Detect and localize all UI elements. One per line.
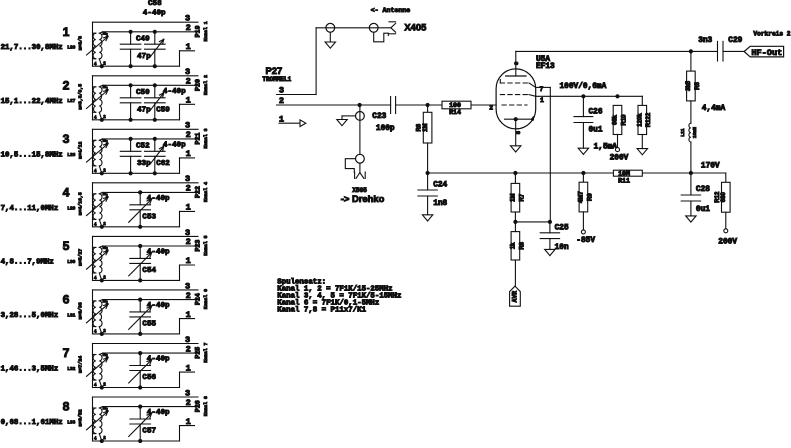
svg-text:10M: 10M [618,170,630,177]
svg-text:4-40p: 4-40p [147,409,170,417]
transformer L31 n=6/38 [87,300,109,335]
connector P23 Kanal 5 pin labels [185,228,209,266]
svg-text:680: 680 [721,192,727,203]
svg-text:1: 1 [540,97,544,104]
svg-text:1n8: 1n8 [433,200,447,208]
connector P19 Kanal 1 pin labels [185,14,209,52]
svg-text:C58: C58 [148,0,162,8]
svg-text:R6: R6 [417,123,423,131]
svg-text:R9: R9 [587,193,593,201]
svg-text:1: 1 [186,149,191,159]
svg-text:3: 3 [185,281,190,291]
svg-text:L29: L29 [67,205,75,211]
svg-text:4-40p: 4-40p [147,195,170,203]
svg-text:L32: L32 [67,366,75,372]
capacitor C52 33p [120,137,151,176]
svg-text:R5: R5 [695,82,701,90]
connector P25 Kanal 7 pin labels [185,335,209,373]
svg-text:L27: L27 [67,98,75,104]
trimmer capacitor C54 4-40p [100,244,170,283]
resistor R7 1M [511,173,526,222]
svg-text:Kanal 1: Kanal 1 [203,21,209,41]
svg-text:10mH: 10mH [692,127,698,138]
wire frame Kanal 3 [93,129,199,173]
wire frame Kanal 4 [93,183,199,227]
svg-text:1: 1 [186,96,191,106]
node labels channel 5 [1,239,84,266]
svg-text:0u1: 0u1 [589,126,603,134]
trimmer capacitor C59 4-40p [100,83,186,122]
svg-text:4-40p: 4-40p [147,356,170,364]
channel 7 filter block [1,335,210,390]
channel 6 filter block [1,281,210,336]
svg-text:4-40p: 4-40p [147,248,170,256]
transformer L26 n=3/8 [87,32,109,67]
wire P27 pin3 to antenna [277,94,317,96]
svg-text:n=4/12: n=4/12 [78,142,84,159]
svg-text:n=3/8: n=3/8 [78,36,84,51]
wire frame Kanal 1 [93,22,199,66]
ground under C26 [578,143,617,154]
svg-text:1M: 1M [511,194,517,202]
svg-text:4,8...7,9MHz: 4,8...7,9MHz [1,258,54,266]
node labels channel 8 [1,400,84,427]
svg-text:3,28...5,0MHz: 3,28...5,0MHz [1,312,59,320]
svg-text:2: 2 [186,184,191,194]
capacitor C25 10n [540,222,569,256]
svg-text:n=3,5/8,5: n=3,5/8,5 [78,84,84,110]
resistor R8 1k [511,222,526,286]
svg-text:100p: 100p [376,125,395,133]
svg-text:3: 3 [63,132,70,146]
wire: AVR bias line with R11 [426,162,726,182]
transformer L32 n=7/24 [87,353,109,388]
svg-text:C55: C55 [142,321,156,329]
channel 3 filter block [1,121,210,176]
svg-text:C50: C50 [136,89,150,97]
wire frame Kanal 7 [93,344,199,388]
svg-text:3n3: 3n3 [698,37,712,45]
svg-text:P26: P26 [194,400,201,412]
note Spulensatz table [277,279,401,315]
svg-text:P24: P24 [194,293,201,305]
svg-text:R122: R122 [646,112,652,127]
svg-text:C57: C57 [142,428,156,436]
capacitor C50 47p [120,83,151,122]
svg-text:5: 5 [63,239,70,253]
svg-text:-85V: -85V [576,237,595,245]
channel 4 filter block [1,174,210,229]
svg-text:L26: L26 [67,45,75,51]
op-amp U5A EF13 pentode tube [489,51,555,145]
trimmer capacitor C58 4-40p [100,0,166,68]
svg-text:Kanal 7: Kanal 7 [203,343,209,363]
socket circle with ground [325,23,335,48]
capacitor C28 0u1 [681,173,710,222]
svg-text:L33: L33 [67,420,75,426]
svg-text:C53: C53 [142,213,156,221]
label Antenne [371,7,411,14]
node labels channel 4 [1,185,84,215]
svg-text:L11: L11 [680,128,686,137]
svg-text:C59: C59 [156,106,170,114]
svg-text:120k: 120k [638,113,644,127]
svg-text:Kanal 2: Kanal 2 [203,75,209,95]
svg-text:<- Antenne: <- Antenne [371,7,411,14]
svg-text:1: 1 [63,25,70,39]
svg-text:2: 2 [186,130,191,140]
svg-text:P22: P22 [194,186,201,198]
node labels channel 1 [1,25,84,52]
wire frame Kanal 8 [93,397,199,441]
svg-text:2: 2 [186,23,191,33]
trimmer capacitor C55 4-40p [100,298,170,337]
svg-text:100V/0,6mA: 100V/0,6mA [560,83,607,91]
svg-text:1: 1 [186,363,191,373]
svg-text:1,5mA: 1,5mA [594,143,618,151]
svg-text:1,46...3,5MHz: 1,46...3,5MHz [1,366,59,374]
capacitor C49 47p [120,30,151,69]
transformer L29 n=4/16,5 [87,192,109,227]
svg-text:Kanal 8: Kanal 8 [203,396,209,416]
trimmer capacitor C57 4-40p [100,405,170,444]
svg-text:L28: L28 [67,152,75,158]
svg-text:100: 100 [449,102,461,109]
transformer L33 n=9/52 [87,407,109,442]
channel 8 filter block [1,388,210,443]
svg-text:10,5...15,8MHz: 10,5...15,8MHz [1,151,63,159]
svg-text:HF-Out: HF-Out [751,48,782,58]
svg-text:21,7...30,8MHz: 21,7...30,8MHz [1,44,63,52]
svg-text:TROMMEL1: TROMMEL1 [262,76,291,83]
svg-text:2: 2 [489,105,493,112]
node labels channel 3 [1,132,84,159]
wire frame Kanal 2 [93,76,199,120]
svg-text:C28: C28 [696,186,710,194]
svg-text:2: 2 [186,291,191,301]
trimmer capacitor C62 4-40p [100,137,186,176]
svg-text:2: 2 [63,78,70,92]
svg-text:EF13: EF13 [536,63,555,71]
svg-text:R14: R14 [449,109,461,116]
svg-text:P21: P21 [194,133,201,145]
svg-text:4M7: 4M7 [579,191,585,203]
svg-text:8: 8 [63,400,70,414]
svg-text:L31: L31 [67,312,75,318]
svg-text:8: 8 [514,62,520,65]
connector X405 plug [369,22,426,42]
svg-text:AVR: AVR [512,291,519,303]
svg-text:1: 1 [186,417,191,427]
svg-text:C24: C24 [433,182,447,190]
capacitor C23 100p [372,97,395,134]
svg-text:2: 2 [186,77,191,87]
svg-text:1: 1 [186,310,191,320]
node labels channel 6 [1,293,84,320]
svg-text:R8: R8 [519,241,525,249]
svg-text:C26: C26 [589,108,603,116]
svg-text:P20: P20 [194,79,201,91]
connector P24 Kanal 6 pin labels [185,281,209,320]
svg-text:0,68...1,61MHz: 0,68...1,61MHz [1,419,63,427]
svg-text:P19: P19 [194,25,201,37]
connector P21 Kanal 3 pin labels [185,121,209,159]
resistor R122 120k [637,105,652,154]
capacitor C26 0u1 [574,96,603,148]
wire frame Kanal 6 [93,290,199,334]
svg-text:68k: 68k [613,114,619,125]
svg-text:R12: R12 [715,191,721,203]
svg-text:n=6/38: n=6/38 [78,302,84,319]
trimmer capacitor C56 4-40p [100,351,170,390]
channel 5 filter block [1,228,210,283]
svg-text:4: 4 [63,185,70,199]
svg-text:33p: 33p [137,160,151,168]
wire: main grid line [277,103,497,107]
connector P20 Kanal 2 pin labels [185,67,209,105]
svg-text:4-40p: 4-40p [163,141,186,149]
capacitor C29 3n3 [691,37,744,61]
svg-text:4-40p: 4-40p [147,302,170,310]
resistor R10 68k [610,105,629,162]
svg-text:Kanal 5: Kanal 5 [203,235,209,255]
svg-text:C23: C23 [372,113,386,121]
svg-text:P23: P23 [194,240,201,252]
svg-text:P27: P27 [266,65,283,76]
svg-text:0u1: 0u1 [696,206,710,214]
svg-text:n=7/24: n=7/24 [78,356,84,373]
resistor R6 1M [417,105,432,173]
node HF-Out flag [744,30,791,57]
svg-text:7: 7 [63,346,70,360]
connector P22 Kanal 4 pin labels [185,174,209,212]
connector P27 TROMMEL1 [262,65,291,124]
svg-text:C25: C25 [555,225,569,233]
svg-text:6: 6 [63,293,70,307]
svg-text:R10: R10 [621,114,627,126]
connector X505 Drehko [337,105,385,204]
svg-text:170V: 170V [701,162,720,170]
transformer L30 n=5/27 [87,246,109,281]
wire frame Kanal 5 [93,236,199,280]
svg-text:C56: C56 [142,374,156,382]
node labels channel 7 [1,346,84,373]
channel 2 filter block [1,67,210,122]
svg-text:1: 1 [186,256,191,266]
svg-text:Vorkreis 2: Vorkreis 2 [753,30,790,37]
ground at tube cathode [511,146,521,152]
svg-text:R11: R11 [618,178,630,185]
transformer L28 n=4/12 [87,139,109,174]
svg-text:200V: 200V [718,238,737,246]
capacitor C24 1n8 [418,173,448,221]
svg-text:n=4/16,5: n=4/16,5 [78,192,84,215]
svg-text:5: 5 [516,131,522,134]
wire: suppressor g3 to bias [536,87,551,222]
svg-text:1k: 1k [511,242,517,249]
svg-text:P25: P25 [194,347,201,359]
svg-text:4,4mA: 4,4mA [702,105,726,113]
svg-text:1M: 1M [423,124,429,132]
channel 1 filter block [1,0,210,68]
resistor R5 3k5 [686,51,725,123]
svg-text:L30: L30 [67,259,75,265]
node AVR flag [510,286,521,306]
svg-text:200V: 200V [610,155,629,163]
svg-text:C49: C49 [136,35,150,43]
node labels channel 2 [1,78,84,109]
svg-text:Kanal 4: Kanal 4 [203,182,209,202]
trimmer capacitor C53 4-40p [100,190,170,229]
resistor R11 10M [613,170,642,184]
svg-text:47p: 47p [137,53,151,61]
wire P27 pin1 arrow [279,120,306,127]
resistor R12 680 [715,182,737,246]
svg-text:1: 1 [186,42,191,52]
wire: cathode bias node [513,220,552,224]
wire: screen 100V rail [536,83,643,105]
resistor R14 100 [442,101,471,116]
transformer L27 n=3,5/8,5 [87,85,109,120]
svg-text:10n: 10n [555,244,569,252]
svg-text:2: 2 [186,398,191,408]
svg-text:47p: 47p [137,106,151,114]
svg-text:n=5/27: n=5/27 [78,249,84,266]
svg-text:C52: C52 [136,143,150,151]
svg-text:C29: C29 [728,37,742,45]
svg-text:C54: C54 [142,267,156,275]
svg-text:Kanal 6: Kanal 6 [203,289,209,309]
svg-text:4-40p: 4-40p [163,88,186,96]
inductor L11 10mH [680,123,698,173]
svg-text:3k5: 3k5 [686,80,692,91]
svg-text:2: 2 [186,344,191,354]
svg-text:4-40p: 4-40p [143,10,166,18]
resistor R9 4M7 [576,173,595,245]
svg-text:Kanal 3: Kanal 3 [203,128,209,148]
svg-text:R7: R7 [519,193,525,201]
svg-text:n=9/52: n=9/52 [78,409,84,426]
svg-text:1: 1 [186,203,191,213]
wire: plate top wire [516,49,693,53]
svg-text:-> Drehko: -> Drehko [341,193,385,204]
wire: antenna input line [316,28,391,95]
svg-text:2: 2 [186,237,191,247]
connector P26 Kanal 8 pin labels [185,388,209,426]
svg-text:X405: X405 [404,22,426,33]
svg-text:Kanal 7,8 = P11x7/K1: Kanal 7,8 = P11x7/K1 [277,307,366,315]
svg-text:15,1...22,4MHz: 15,1...22,4MHz [1,98,63,106]
svg-text:7,4...11,0MHz: 7,4...11,0MHz [1,205,59,213]
svg-text:C62: C62 [156,160,170,168]
